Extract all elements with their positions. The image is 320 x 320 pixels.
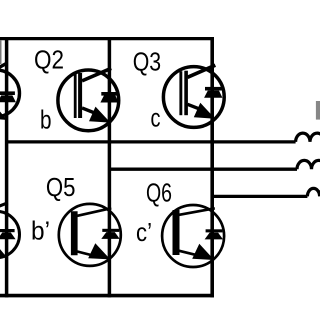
transistor Q4 (partial, cut at left edge) xyxy=(0,203,20,258)
svg-text:Q5: Q5 xyxy=(46,172,76,202)
label Q2 xyxy=(34,44,64,74)
wire: bottom DC bus xyxy=(0,294,214,298)
diode (Q6 anti-parallel) xyxy=(205,229,223,239)
transistor Q5 (BJT style) xyxy=(59,204,121,266)
inductor (phase a load coil) xyxy=(296,133,320,142)
wire: phase c output line xyxy=(212,195,307,198)
diode (Q2 anti-parallel) xyxy=(100,92,118,103)
svg-text:Q2: Q2 xyxy=(34,44,64,74)
svg-text:Q3: Q3 xyxy=(133,46,161,76)
wire: leg b vertical (phase b) xyxy=(108,37,112,297)
cropped gray label fragment at right edge xyxy=(316,101,320,120)
svg-text:c: c xyxy=(151,102,161,132)
node c (phase c upper) xyxy=(151,102,161,132)
diode (Q3 anti-parallel) xyxy=(204,87,222,98)
wire: phase a output line xyxy=(7,140,296,143)
svg-text:b: b xyxy=(40,105,52,135)
diode (Q5 anti-parallel) xyxy=(101,229,119,239)
label Q3 xyxy=(133,46,161,76)
diode (Q1 anti-parallel) xyxy=(0,91,16,102)
label Q6 xyxy=(146,177,172,207)
wire: leg a vertical (phase a) xyxy=(5,37,9,297)
transistor Q6 (BJT style) xyxy=(162,205,224,267)
wire: leg c vertical (phase c) xyxy=(210,37,214,297)
svg-text:Q6: Q6 xyxy=(146,177,172,207)
svg-text:b’: b’ xyxy=(31,216,50,246)
wire: top DC bus xyxy=(0,37,214,40)
inductor (phase c load coil) xyxy=(307,188,320,196)
transistor Q2 (IGBT) xyxy=(58,68,119,131)
wire: phase b output line xyxy=(109,168,297,171)
node b (phase b upper) xyxy=(40,105,52,135)
node c' (phase c lower) xyxy=(136,217,152,247)
wire: cropped DC-link branch at left edge xyxy=(0,40,1,64)
label Q5 xyxy=(46,172,76,202)
transistor Q1 (partial, cut at left edge) xyxy=(0,63,20,120)
inductor (phase b load coil) xyxy=(297,160,320,169)
diode (Q4 anti-parallel) xyxy=(0,229,16,239)
transistor Q3 (IGBT) xyxy=(163,65,224,127)
node b' (phase b lower) xyxy=(31,216,50,246)
svg-text:c’: c’ xyxy=(136,217,152,247)
